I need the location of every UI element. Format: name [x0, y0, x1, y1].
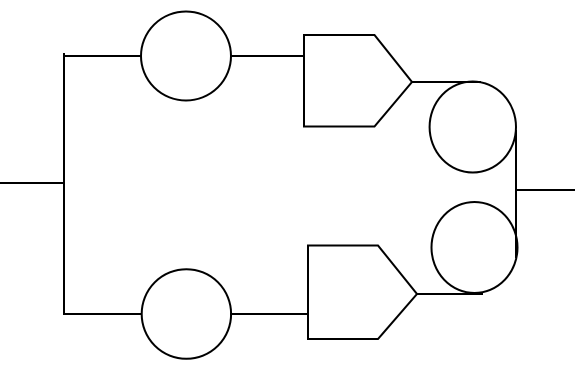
wire node N4 to buffer A2: [230, 313, 309, 315]
wire bottom branch (bus to node N4): [63, 313, 142, 315]
node N3 (bottom-right circle): [432, 202, 518, 293]
node N2 (top-right circle): [430, 82, 516, 173]
buffer A1 (top pentagon): [304, 35, 412, 127]
wire left vertical bus: [63, 53, 65, 315]
node N4 (bottom-left circle): [142, 269, 231, 359]
wire right vertical bus: [515, 130, 517, 258]
wire A1 apex to node N2 (tangent): [412, 81, 481, 83]
wire output (right lead): [516, 189, 575, 191]
wire input (left lead): [0, 182, 65, 184]
node N1 (top-left circle): [141, 12, 231, 101]
buffer A2 (bottom pentagon): [308, 246, 417, 340]
wire top branch (bus to node N1): [63, 55, 142, 57]
wire N1 to buffer A1: [230, 55, 305, 57]
wire A2 apex to node N3 (tangent): [417, 293, 483, 295]
